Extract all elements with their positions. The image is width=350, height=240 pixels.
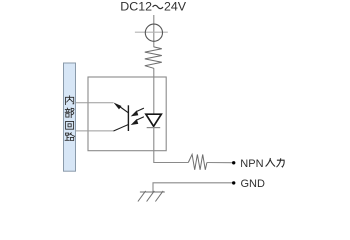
svg-text:NPN: NPN <box>240 158 263 170</box>
svg-text:24V: 24V <box>164 0 187 14</box>
svg-text:GND: GND <box>241 178 266 190</box>
svg-text:DC12: DC12 <box>120 0 152 14</box>
